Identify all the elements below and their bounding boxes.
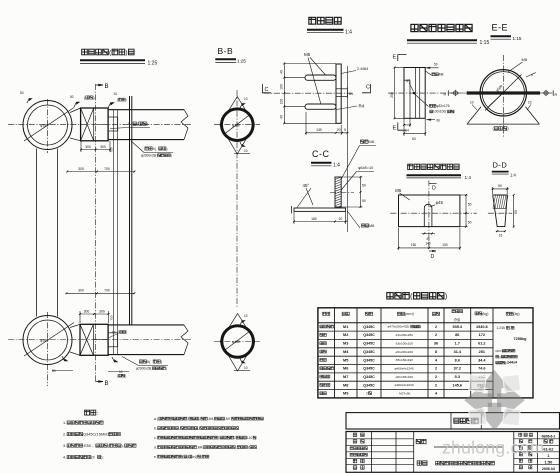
svg-text:φ480x4x1630: φ480x4x1630 — [395, 383, 414, 387]
svg-text:Q345C: Q345C — [363, 350, 375, 354]
svg-text:3.: 3. — [63, 443, 66, 448]
svg-text:2.: 2. — [63, 432, 66, 437]
D-D bottom dim 15 — [496, 230, 506, 237]
svg-text:10: 10 — [528, 101, 532, 105]
view title D-D — [492, 160, 517, 177]
top pipe — [108, 110, 188, 140]
svg-text:M4: M4 — [343, 350, 349, 354]
pipe side weld arrow bottom right — [426, 119, 440, 123]
svg-text:,M4,: ,M4, — [208, 417, 215, 421]
E-E saddle trapezoid — [467, 107, 539, 124]
shim plate bottom dim 150-150 — [398, 228, 461, 250]
svg-text:4.: 4. — [63, 455, 66, 460]
svg-text:): ) — [187, 455, 188, 459]
material table title — [387, 293, 393, 299]
bottom eye ring outer — [23, 316, 72, 365]
svg-text:1:4: 1:4 — [465, 175, 472, 180]
weld symbol top-right of block — [108, 92, 127, 108]
svg-text:8: 8 — [435, 350, 437, 354]
svg-text:300: 300 — [100, 145, 106, 149]
svg-text:10: 10 — [244, 366, 248, 370]
svg-text:M5: M5 — [304, 52, 311, 57]
material table rows — [320, 325, 488, 396]
svg-text:R4: R4 — [359, 104, 365, 109]
svg-text:-20x165x190: -20x165x190 — [395, 375, 413, 379]
svg-text:61-62: 61-62 — [543, 447, 554, 452]
weld symbol bottom-left of lower block — [52, 356, 73, 373]
svg-text:50: 50 — [468, 203, 472, 207]
B-B top eye inner line — [225, 115, 250, 134]
svg-text:244x4: 244x4 — [507, 361, 517, 365]
weld symbol left of top eye — [20, 91, 32, 103]
svg-text:R: R — [555, 93, 558, 97]
svg-text:E-E: E-E — [492, 23, 509, 33]
flange R4 leader label — [337, 104, 365, 110]
view title: oil guide pipe detail — [407, 24, 489, 46]
svg-text:1:15: 1:15 — [513, 36, 522, 41]
C-C base plate — [292, 206, 346, 214]
svg-text:150: 150 — [442, 243, 448, 247]
svg-text:10: 10 — [119, 370, 123, 374]
B-B bottom weld flags — [234, 314, 250, 371]
svg-text:zhulong.com: zhulong.com — [442, 438, 545, 458]
svg-text:8.6: 8.6 — [455, 358, 460, 362]
svg-text:(kg): (kg) — [482, 312, 488, 316]
pipe side view body — [404, 68, 425, 119]
pipe side bottom dims — [403, 118, 426, 141]
svg-text:M7: M7 — [343, 375, 348, 379]
svg-text:e.: e. — [154, 455, 157, 459]
B-B bottom eye inner line — [225, 331, 250, 350]
svg-text:E: E — [393, 126, 397, 132]
svg-text:100: 100 — [280, 84, 284, 90]
svg-text:145.6: 145.6 — [453, 383, 463, 387]
svg-text:36: 36 — [434, 342, 438, 346]
C-C leader label bottom right — [347, 211, 374, 228]
shim plate slot label — [430, 200, 444, 207]
svg-text:R: R — [444, 93, 447, 97]
svg-text:M8: M8 — [439, 73, 444, 77]
B-B top diamond plate outline — [220, 97, 255, 155]
E-E vertical centerline — [502, 55, 504, 137]
title block left labels — [350, 433, 367, 469]
svg-text:1:4: 1:4 — [333, 163, 340, 169]
D-D right dim — [513, 194, 518, 227]
connection plate verticals — [129, 96, 131, 325]
svg-text:M8: M8 — [522, 57, 528, 62]
E-E leg dims — [470, 101, 532, 111]
dim 300-300 bottom block — [79, 309, 109, 323]
top fork block — [70, 108, 118, 141]
section line D vertical — [428, 180, 430, 250]
svg-text:E: E — [393, 55, 397, 61]
material table grid — [318, 308, 533, 398]
title block middle: project / drawing name — [416, 439, 503, 465]
svg-text:φ180: φ180 — [40, 339, 48, 343]
top eye diagonal — [24, 108, 74, 142]
svg-text:110: 110 — [247, 436, 253, 440]
E-E diameter line — [485, 75, 522, 111]
dim 300-300 top block — [80, 141, 111, 152]
eye bar plates verticals — [36, 149, 38, 317]
C-C centerline — [330, 192, 354, 194]
view title: flange detail — [307, 17, 352, 35]
C-C right dimension 50-50 — [341, 176, 366, 208]
view title: joint installation (welded) — [80, 49, 157, 66]
svg-text:M8: M8 — [369, 224, 374, 228]
svg-text:φ470x280x425(: φ470x280x425( — [388, 325, 411, 329]
notes heading — [85, 410, 90, 415]
svg-text:C: C — [366, 85, 370, 91]
svg-text:(II: (II — [91, 455, 94, 460]
E-E leader to top right M8 — [508, 57, 536, 77]
notes left column — [63, 420, 136, 460]
shim plate slot dims — [422, 233, 436, 246]
svg-text:M2: M2 — [343, 333, 348, 337]
svg-text:2: 2 — [435, 367, 437, 371]
svg-text:B-B: B-B — [218, 46, 234, 56]
svg-text:300: 300 — [78, 289, 84, 293]
centerline top pipe — [8, 124, 192, 126]
svg-text:-55x180x190: -55x180x190 — [395, 358, 413, 362]
B-B bottom horizontal centerline — [214, 341, 260, 343]
svg-text:700: 700 — [104, 289, 110, 293]
svg-text:(mm): (mm) — [405, 312, 415, 316]
E-E rod extension left with datum — [444, 90, 467, 97]
svg-text:1:4: 1:4 — [510, 173, 516, 178]
svg-text:300: 300 — [84, 309, 90, 313]
top eye ring outer — [23, 101, 72, 150]
view title: saddle shim plate detail — [407, 164, 472, 180]
svg-text:2: 2 — [234, 436, 236, 440]
svg-text:4: 4 — [531, 73, 533, 77]
weld note II grade with leader — [110, 121, 150, 128]
svg-text:40: 40 — [280, 70, 284, 74]
svg-text:86: 86 — [455, 333, 459, 337]
material table remark column text — [496, 326, 528, 365]
C-C bottom dimension 180-20 — [293, 212, 347, 224]
D-D top dim 50 — [492, 184, 509, 194]
svg-text:1:15: 1:15 — [480, 40, 490, 46]
svg-text:M3: M3 — [343, 342, 348, 346]
C-C flange section hatched — [335, 177, 341, 208]
weld label above lower rod — [108, 330, 127, 338]
svg-text:5.3: 5.3 — [455, 375, 460, 379]
svg-text:): ) — [420, 325, 421, 329]
svg-text:20: 20 — [339, 217, 343, 221]
svg-text:): ) — [125, 50, 127, 57]
section line B-B vertical — [95, 84, 97, 382]
svg-text:,: , — [187, 417, 188, 421]
C-C long section line vertical — [346, 66, 348, 232]
svg-text:61.2: 61.2 — [478, 342, 485, 346]
svg-text:φ180: φ180 — [232, 340, 240, 344]
svg-text:M6: M6 — [343, 367, 348, 371]
svg-text:1:25: 1:25 — [237, 59, 246, 64]
svg-text:2: 2 — [435, 333, 437, 337]
svg-text:130: 130 — [316, 128, 322, 132]
svg-text:10: 10 — [244, 314, 248, 318]
svg-text:b.: b. — [154, 426, 157, 430]
svg-text:40: 40 — [280, 115, 284, 119]
shim plate M5 label — [395, 188, 410, 200]
svg-text:.: . — [510, 326, 511, 330]
svg-text:φ64δ=10: φ64δ=10 — [358, 166, 373, 170]
flange plate front — [336, 64, 341, 123]
dim 300-700 lower — [66, 289, 136, 295]
svg-text:Q345C: Q345C — [363, 358, 375, 362]
svg-text:B: B — [105, 84, 109, 90]
svg-text:φ180: φ180 — [40, 124, 48, 128]
svg-text:2006.04: 2006.04 — [542, 467, 555, 471]
svg-text:Q345C: Q345C — [363, 375, 375, 379]
svg-text:d.: d. — [154, 445, 157, 449]
svg-text:250: 250 — [390, 92, 394, 98]
svg-text:φ6: φ6 — [406, 79, 410, 83]
svg-text:300: 300 — [78, 167, 84, 171]
svg-text:φ32x176: φ32x176 — [436, 104, 449, 108]
svg-text:60: 60 — [412, 137, 416, 141]
flange rib bar upper — [305, 75, 336, 80]
svg-text:): ) — [201, 455, 202, 459]
svg-text:D: D — [431, 254, 435, 260]
svg-text:(kg): (kg) — [454, 317, 460, 321]
E-E rod extension right with datum — [540, 90, 558, 97]
svg-text:2-M64: 2-M64 — [357, 66, 369, 71]
bottom eye ring inner — [28, 320, 68, 360]
view title C-C — [311, 149, 340, 169]
E-E rod cross band — [467, 91, 540, 94]
flange rib bar lower — [305, 104, 336, 109]
svg-text:1:4: 1:4 — [345, 30, 352, 36]
svg-text:II: II — [128, 121, 130, 126]
svg-text:145: 145 — [425, 241, 431, 245]
svg-text:Q345C: Q345C — [363, 325, 375, 329]
svg-text:10: 10 — [112, 331, 116, 335]
svg-text:,: , — [179, 426, 180, 430]
svg-text:1.245: 1.245 — [497, 326, 505, 330]
svg-text:251: 251 — [479, 350, 485, 354]
svg-text:1.7: 1.7 — [455, 342, 460, 346]
svg-text:10: 10 — [470, 101, 474, 105]
svg-text:D: D — [432, 186, 436, 192]
svg-text:50: 50 — [52, 369, 56, 373]
svg-text:M5: M5 — [343, 358, 348, 362]
leader note bottom pipe: weld seam / spiral pipe — [122, 357, 168, 371]
svg-text:50: 50 — [498, 184, 502, 188]
flange left dimension chain — [280, 63, 341, 125]
svg-text:M8: M8 — [368, 139, 374, 144]
svg-text:M1: M1 — [343, 325, 348, 329]
svg-text:2: 2 — [435, 383, 437, 387]
svg-text:,M7,: ,M7, — [225, 417, 232, 421]
svg-text:34.4: 34.4 — [478, 358, 486, 362]
svg-text:,: , — [199, 417, 200, 421]
flange top-right leader label — [341, 66, 369, 73]
notes right column — [154, 417, 263, 459]
svg-text:): ) — [454, 110, 455, 114]
C-C 45 deg label — [297, 183, 313, 208]
vertical centerline bottom eye — [47, 312, 49, 386]
svg-text:15: 15 — [499, 234, 503, 238]
svg-text:): ) — [125, 98, 126, 102]
svg-text:1.: 1. — [63, 420, 66, 425]
B-B bottom diamond plate outline — [220, 314, 255, 372]
title block right labels and values — [519, 433, 556, 471]
svg-text::E50 -: :E50 - — [83, 443, 94, 448]
flange bottom dimension — [305, 112, 348, 135]
bottom pipe — [108, 325, 188, 355]
centerline bottom pipe — [8, 339, 192, 341]
pipe side center point and leader — [406, 79, 455, 114]
svg-text:): ) — [126, 330, 127, 334]
section marker B bottom — [96, 381, 109, 387]
E-E radius line — [489, 93, 504, 107]
svg-text:c.: c. — [154, 436, 157, 440]
svg-text:),: ), — [121, 443, 123, 448]
svg-text:,M4,: ,M4, — [197, 445, 204, 449]
top eye ring inner — [28, 105, 68, 145]
svg-text:60: 60 — [437, 119, 441, 123]
svg-text:M27x90: M27x90 — [399, 392, 410, 396]
svg-text:,: , — [198, 426, 199, 430]
title block frame — [346, 432, 560, 473]
svg-text:φ2000x28(: φ2000x28( — [136, 366, 152, 370]
svg-text:50: 50 — [20, 91, 24, 95]
svg-text:172: 172 — [479, 333, 485, 337]
svg-text:):: ): — [101, 455, 103, 460]
svg-text:50: 50 — [468, 221, 472, 225]
svg-text:5: 5 — [344, 128, 346, 132]
pipe side weld arrow top right — [426, 63, 444, 77]
svg-text:M9: M9 — [343, 392, 348, 396]
section marker D bottom — [429, 250, 436, 260]
svg-text:20: 20 — [337, 128, 341, 132]
svg-text:60: 60 — [514, 210, 518, 214]
B-B top weld flags — [234, 97, 250, 154]
svg-text:,: , — [236, 445, 237, 449]
svg-text:-20x200x200: -20x200x200 — [395, 350, 413, 354]
view title B-B — [215, 46, 246, 64]
svg-text:180: 180 — [311, 217, 317, 221]
svg-text:50: 50 — [362, 199, 366, 203]
section marker C right — [362, 84, 371, 93]
svg-text:C-C: C-C — [312, 149, 330, 159]
material table header — [323, 310, 520, 322]
section marker D top — [429, 183, 437, 191]
svg-text:B: B — [105, 381, 109, 387]
section marker C left — [263, 84, 272, 93]
B-B top horizontal centerline — [214, 124, 260, 126]
svg-text:b4(: b4( — [192, 455, 198, 459]
bottom fork block — [70, 324, 118, 355]
svg-text:Q345C: Q345C — [363, 383, 375, 387]
svg-text:2: 2 — [435, 375, 437, 379]
D-D wedge section — [493, 195, 508, 227]
svg-text:100x100(: 100x100( — [433, 110, 447, 114]
svg-text:74.6: 74.6 — [478, 367, 485, 371]
svg-text:31.4: 31.4 — [454, 350, 462, 354]
svg-text:C: C — [265, 87, 269, 93]
dim 300-700 upper — [66, 167, 135, 173]
weld symbol top-left of block — [70, 95, 95, 107]
E-E inner circle — [482, 72, 524, 114]
svg-text:φ180: φ180 — [232, 123, 240, 127]
pipe side view left dimension — [390, 67, 404, 120]
svg-text:): ) — [171, 153, 172, 157]
svg-text:φ406x4x1240: φ406x4x1240 — [395, 367, 414, 371]
weld symbol bottom-right of lower block — [108, 357, 129, 378]
section marker B top — [96, 84, 109, 90]
flange centerline C-C cut — [264, 92, 353, 94]
svg-text:50: 50 — [70, 95, 74, 99]
shim plate centerline — [390, 212, 477, 214]
svg-text:M8: M8 — [343, 383, 348, 387]
svg-text:300: 300 — [99, 309, 105, 313]
svg-text:64: 64 — [349, 92, 353, 96]
svg-text:7258kg: 7258kg — [514, 337, 528, 341]
svg-text:φ45: φ45 — [436, 200, 444, 205]
B-B top eye section circle — [222, 109, 254, 141]
svg-text:-16x200x250: -16x200x250 — [395, 333, 413, 337]
flange M5 leader label — [304, 52, 326, 105]
svg-text:750: 750 — [110, 315, 114, 320]
svg-text:14: 14 — [405, 129, 409, 133]
watermark logo pinwheel — [464, 370, 524, 430]
C-C leader weld label upper — [341, 139, 376, 179]
svg-text:50: 50 — [434, 63, 438, 67]
svg-text:10: 10 — [244, 149, 248, 153]
svg-text::: : — [514, 326, 515, 330]
svg-text:2: 2 — [248, 445, 250, 449]
svg-text:1940.8: 1940.8 — [476, 325, 488, 329]
svg-text:1:25: 1:25 — [148, 61, 158, 67]
svg-text:10: 10 — [244, 97, 248, 101]
svg-text:,: , — [218, 436, 219, 440]
svg-text:Q345C(16MnD): Q345C(16MnD) — [83, 432, 111, 437]
vertical centerline top eye — [47, 99, 49, 153]
section marker E bottom — [393, 123, 407, 132]
section marker E top — [393, 55, 407, 62]
svg-text:700: 700 — [104, 167, 110, 171]
svg-text:100: 100 — [280, 99, 284, 105]
shim plate body — [399, 195, 460, 227]
B-B bottom eye section circle — [222, 326, 254, 358]
E-E outer circle — [480, 70, 526, 116]
svg-text:150: 150 — [411, 243, 417, 247]
B-B vertical centerline — [236, 90, 238, 308]
svg-text:2: 2 — [435, 325, 437, 329]
svg-text:(kg): (kg) — [513, 312, 519, 316]
svg-text:45°: 45° — [303, 183, 310, 188]
svg-text:50: 50 — [362, 184, 366, 188]
svg-text:Q345C: Q345C — [363, 342, 375, 346]
svg-text:Q345C: Q345C — [363, 333, 375, 337]
D-D centerline — [488, 212, 512, 214]
svg-text:1:50: 1:50 — [545, 460, 553, 465]
svg-text:300: 300 — [85, 145, 91, 149]
C-C leader label lower — [341, 166, 374, 190]
svg-text:φ2000x28(: φ2000x28( — [141, 153, 157, 157]
pipe side view centerline — [388, 92, 461, 94]
svg-text:10: 10 — [114, 92, 118, 96]
view title E-E — [491, 23, 522, 41]
svg-text:): ) — [166, 366, 167, 370]
svg-text:M5: M5 — [395, 188, 402, 193]
shim plate right dim 50-50 — [460, 194, 472, 227]
svg-text:D-D: D-D — [493, 160, 508, 169]
leader note top pipe: weld seam / spiral pipe — [131, 141, 173, 157]
